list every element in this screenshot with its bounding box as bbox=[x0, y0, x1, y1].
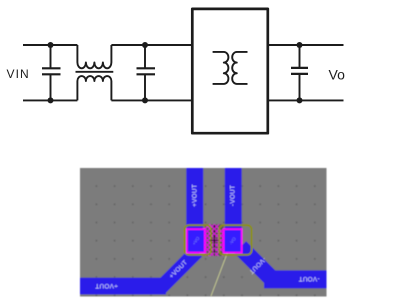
centerline dashes bbox=[213, 225, 215, 256]
pad P2 (-VOUT) bbox=[224, 229, 242, 253]
node dot C2 top bbox=[142, 42, 148, 48]
svg-text:+VOUT: +VOUT bbox=[95, 282, 118, 289]
svg-text:Vo: Vo bbox=[329, 66, 346, 82]
transformer T1 secondary winding bbox=[232, 52, 247, 84]
wire top-right bbox=[268, 44, 344, 46]
svg-text:-VOUT: -VOUT bbox=[230, 185, 237, 206]
wire bottom-left bbox=[23, 99, 77, 101]
transformer T1 primary winding bbox=[213, 52, 229, 84]
pad P1 (+VOUT) bbox=[187, 229, 205, 253]
trace right diagonal -VOUT bbox=[240, 247, 274, 281]
trace bottom-right bar -VOUT bbox=[264, 270, 327, 288]
common-mode choke L1 top winding bbox=[77, 45, 111, 68]
wire bottom-mid bbox=[111, 99, 192, 101]
node dot C1 bottom bbox=[48, 97, 54, 103]
board background bbox=[80, 168, 327, 297]
ratsnest line bbox=[211, 230, 236, 296]
trace vertical +VOUT bbox=[186, 168, 203, 230]
node dot C3 bottom bbox=[297, 97, 303, 103]
wire top-left bbox=[23, 44, 77, 46]
trace left diagonal +VOUT bbox=[160, 251, 197, 288]
choke L1 bottom winding bbox=[77, 76, 111, 100]
node dot C3 top bbox=[297, 42, 303, 48]
silkscreen outline left footprint bbox=[185, 225, 212, 255]
wire bottom-right bbox=[268, 99, 344, 101]
capacitor C3 bbox=[291, 45, 308, 100]
hatched footprint area between pads bbox=[194, 206, 234, 281]
svg-text:-VOUT: -VOUT bbox=[298, 275, 319, 282]
center cross mark bbox=[211, 237, 218, 244]
trace bottom-left bar +VOUT bbox=[80, 278, 166, 295]
converter module box U1 bbox=[192, 9, 267, 133]
capacitor C1 bbox=[42, 45, 61, 100]
node dot C1 top bbox=[48, 42, 54, 48]
node dot C2 bottom bbox=[142, 97, 148, 103]
trace vertical -VOUT bbox=[225, 168, 242, 230]
PCB layout screenshot group bbox=[80, 168, 327, 297]
capacitor C2 bbox=[137, 45, 156, 100]
schematic group bbox=[7, 9, 346, 133]
svg-text:VIN: VIN bbox=[7, 67, 30, 81]
choke L1 core bbox=[76, 71, 114, 73]
wire top-mid bbox=[111, 44, 192, 46]
svg-text:+VOUT: +VOUT bbox=[191, 184, 198, 207]
silkscreen outline right footprint bbox=[219, 225, 251, 255]
